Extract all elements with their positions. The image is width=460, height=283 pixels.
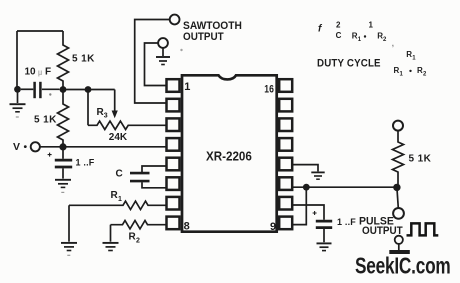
wire node F to pulse terminal [397,187,398,208]
terminal output ground reference [158,38,168,48]
svg-text:5 1K: 5 1K [72,54,95,65]
svg-text:,: , [392,39,394,48]
resistor 5.1K (upper left, vertical) [58,31,69,90]
svg-text:µ: µ [38,68,43,77]
wire node B to node C [63,89,88,91]
svg-text:2: 2 [136,237,140,244]
wire pin 10 to 1uF [292,205,324,220]
wire ground terminal to pin 1 [145,43,167,86]
capacitor 1uF (pin 10) [316,221,332,242]
wire node C to R3 wiper arm [88,89,115,91]
pin 7 [167,197,180,210]
terminal V+ [31,142,40,151]
node F (pulse output node) [393,184,400,191]
resistor R1 (horizontal to pin 7) [69,201,167,209]
svg-text:1: 1 [369,21,374,30]
node C (R3 tap node) [85,86,92,93]
svg-text:2: 2 [423,72,427,78]
svg-text:1: 1 [412,55,416,61]
ground (below terminal) [156,48,170,65]
svg-text:24K: 24K [109,132,128,143]
square wave icon [407,223,439,235]
svg-text:5 1K: 5 1K [409,153,432,164]
svg-text:2: 2 [383,37,387,43]
pin 9 [279,217,292,230]
svg-text:DUTY CYCLE: DUTY CYCLE [317,58,381,70]
formula f = 2/C * 1/(R1+R2) [318,21,394,48]
ground (pulse output, thick bar) [398,244,400,250]
resistor R2 (horizontal to pin 8) [111,221,167,229]
svg-text:1: 1 [358,37,362,43]
pin 3 [167,118,180,131]
wire left vertical down to 10uF node [16,31,18,89]
wire node C down to R3 left end [87,90,89,126]
wire pin 11 to output node [292,186,397,188]
svg-text:OUTPUT: OUTPUT [183,32,224,44]
node E (pin 11/9 junction) [303,184,310,191]
pin 14 [279,118,292,131]
pin 2 [167,99,180,112]
terminal top-right (V+ for pull-up) [393,121,403,131]
pin 10 [279,197,292,210]
capacitor C (timing, pins 5-6) [130,166,167,188]
pin 11 [279,177,292,190]
svg-text:F: F [45,67,51,78]
svg-text:16: 16 [264,83,274,95]
wire pin 9 riser [292,187,306,224]
pin 15 [279,99,292,112]
capacitor 10uF (plates) [21,82,60,98]
wire R1 left down [68,205,70,241]
ground (1uF right) [317,243,332,250]
svg-text:SeekIC.com: SeekIC.com [355,254,450,279]
terminal pulse output [393,208,404,219]
svg-text:1: 1 [118,196,122,203]
pin 5 [167,158,180,171]
pin 4 [167,138,180,151]
ground (R1) [61,243,77,255]
pin 16 [279,79,292,92]
svg-text:10: 10 [25,67,37,78]
ground (below 1uF left) [55,180,71,193]
wire top-left horizontal (bias loop top) [17,30,63,32]
svg-text:C: C [116,168,123,179]
svg-text:1: 1 [184,81,190,93]
ground (pin 12) [311,172,324,179]
svg-text:1 ..F: 1 ..F [337,217,356,227]
svg-text:9: 9 [270,221,276,233]
resistor R3 24K (horizontal) with wire to pin 3 [88,121,167,129]
svg-text:C: C [336,31,342,40]
node A (10uF left node) [14,86,21,93]
svg-text:XR-2206: XR-2206 [206,149,252,163]
op IC body XR-2206 [182,75,277,231]
svg-text:SAWTOOTH: SAWTOOTH [183,20,242,32]
svg-text:8: 8 [184,220,190,232]
pin 12 [279,158,292,171]
svg-text:3: 3 [104,113,108,120]
wire V+ to pin 4 [40,146,167,148]
svg-text:2: 2 [336,21,341,30]
svg-text:5 1K: 5 1K [34,114,57,125]
svg-text:1 ..F: 1 ..F [76,157,95,167]
svg-text:1: 1 [400,72,404,78]
terminal sawtooth output [170,15,180,25]
pin 1 [167,79,180,92]
formula DUTY CYCLE = R1/(R1+R2) [317,50,427,78]
ground (R2) [103,243,119,251]
svg-text:V: V [13,141,20,153]
capacitor 1uF (bypass at V+) [55,147,72,179]
wire R2 left down [110,225,112,242]
wire pin 12 to ground [292,165,318,172]
pin 6 [167,177,180,190]
pin 13 [279,138,292,151]
wire sawtooth terminal to pin 2 [135,20,170,104]
ground (below node A) [10,89,26,117]
node D (V+ node) [59,143,66,150]
svg-text:f: f [318,24,323,35]
wiper arrow of R3 [114,90,116,112]
terminal small (pulse ground) [395,236,403,244]
node B (bias mid node at 5.1K junction) [60,86,67,93]
resistor 5.1K (right, vertical) [393,131,404,188]
resistor 5.1K (lower left, vertical) [58,90,69,148]
pin 8 [167,217,180,230]
